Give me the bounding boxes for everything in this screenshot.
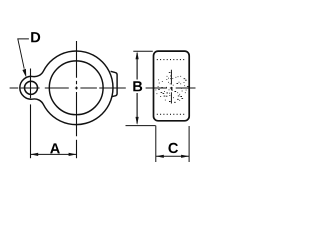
- A right arrow: [69, 153, 77, 156]
- D leader arrowhead: [22, 69, 26, 78]
- A dimension line: [30, 153, 76, 155]
- B top arrow: [136, 51, 139, 59]
- B dimension line upper: [136, 53, 138, 80]
- side view rounded rectangle: [154, 51, 190, 121]
- label C: [168, 143, 178, 153]
- A left arrow: [30, 153, 38, 156]
- label B: [133, 81, 142, 91]
- side view stipple texture: [156, 72, 189, 102]
- front view outer contour (ring silhouette with lug): [20, 51, 113, 125]
- lug hole: [25, 81, 38, 94]
- vertical centerline front view: [76, 41, 78, 136]
- D leader line: [18, 39, 29, 69]
- A left extension line: [30, 104, 32, 158]
- C left arrow: [156, 155, 164, 158]
- side view hidden line bottom (dotted): [157, 113, 187, 115]
- C right arrow: [181, 155, 189, 158]
- C right extension line: [188, 126, 190, 162]
- B bottom extension line: [126, 125, 156, 127]
- B bottom arrow: [136, 117, 139, 125]
- side view vertical centerline: [170, 70, 172, 104]
- C left extension line: [155, 126, 157, 162]
- C dimension line: [156, 155, 189, 157]
- label A: [50, 143, 60, 153]
- side view horizontal centerline: [146, 87, 196, 89]
- horizontal centerline front view: [10, 87, 126, 89]
- B top extension line: [133, 50, 153, 52]
- label D: [31, 32, 40, 42]
- lug vertical centerline: [30, 69, 32, 99]
- bore circle: [49, 61, 103, 115]
- B dimension line lower: [136, 93, 138, 124]
- side view hidden line top (dotted): [157, 59, 187, 61]
- A right extension line: [76, 140, 78, 158]
- tab on right: [111, 71, 118, 96]
